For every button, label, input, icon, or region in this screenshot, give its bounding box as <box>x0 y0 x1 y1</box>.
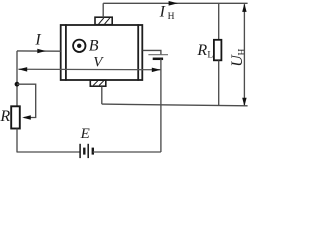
wire from right electrode <box>143 50 161 54</box>
left current electrode inner line <box>65 24 67 81</box>
svg-text:R: R <box>196 42 207 59</box>
wiper branch wire <box>17 84 36 117</box>
arrow right on drift line <box>152 68 161 73</box>
wiper arrow into R <box>22 115 31 120</box>
top hall electrode (hatched) <box>95 17 112 25</box>
wire top stub from top electrode <box>102 3 104 17</box>
junction dot <box>15 82 20 87</box>
label UH rotated <box>229 48 247 66</box>
hall element body outline <box>61 25 143 80</box>
wire bottom stub from bottom electrode <box>101 86 103 104</box>
svg-text:B: B <box>89 38 99 55</box>
svg-text:L: L <box>207 51 213 61</box>
wire left vertical upper <box>16 51 18 106</box>
wire bottom rail left <box>17 151 80 153</box>
wire RL branch upper <box>218 3 220 40</box>
resistor RL <box>214 40 222 61</box>
svg-text:I: I <box>159 3 166 20</box>
wire current input I <box>17 50 61 52</box>
carrier drift line with arrows <box>18 68 161 71</box>
right current electrode inner line <box>137 24 139 81</box>
wire bottom hall rail <box>102 104 248 106</box>
svg-text:I: I <box>34 32 41 49</box>
flux symbol circle-dot <box>73 40 85 52</box>
svg-text:R: R <box>0 108 10 125</box>
svg-text:H: H <box>238 48 248 55</box>
arrow left on drift line <box>18 67 27 72</box>
svg-text:H: H <box>168 12 175 22</box>
wire RL branch lower <box>218 60 220 105</box>
cell short plate <box>153 58 163 61</box>
bottom hall electrode (hatched) <box>90 80 106 86</box>
rheostat R <box>11 106 20 128</box>
svg-text:E: E <box>80 126 90 142</box>
wire left vertical lower <box>16 129 18 153</box>
wire bottom rail right <box>93 151 161 153</box>
dimension arrow UH <box>242 4 246 107</box>
wire right vertical down to bottom rail <box>160 59 162 152</box>
battery E <box>80 144 93 158</box>
wire top rail <box>103 2 247 4</box>
arrow I <box>37 49 46 54</box>
arrow IH on top rail <box>169 1 178 6</box>
cell long plate <box>148 54 168 56</box>
